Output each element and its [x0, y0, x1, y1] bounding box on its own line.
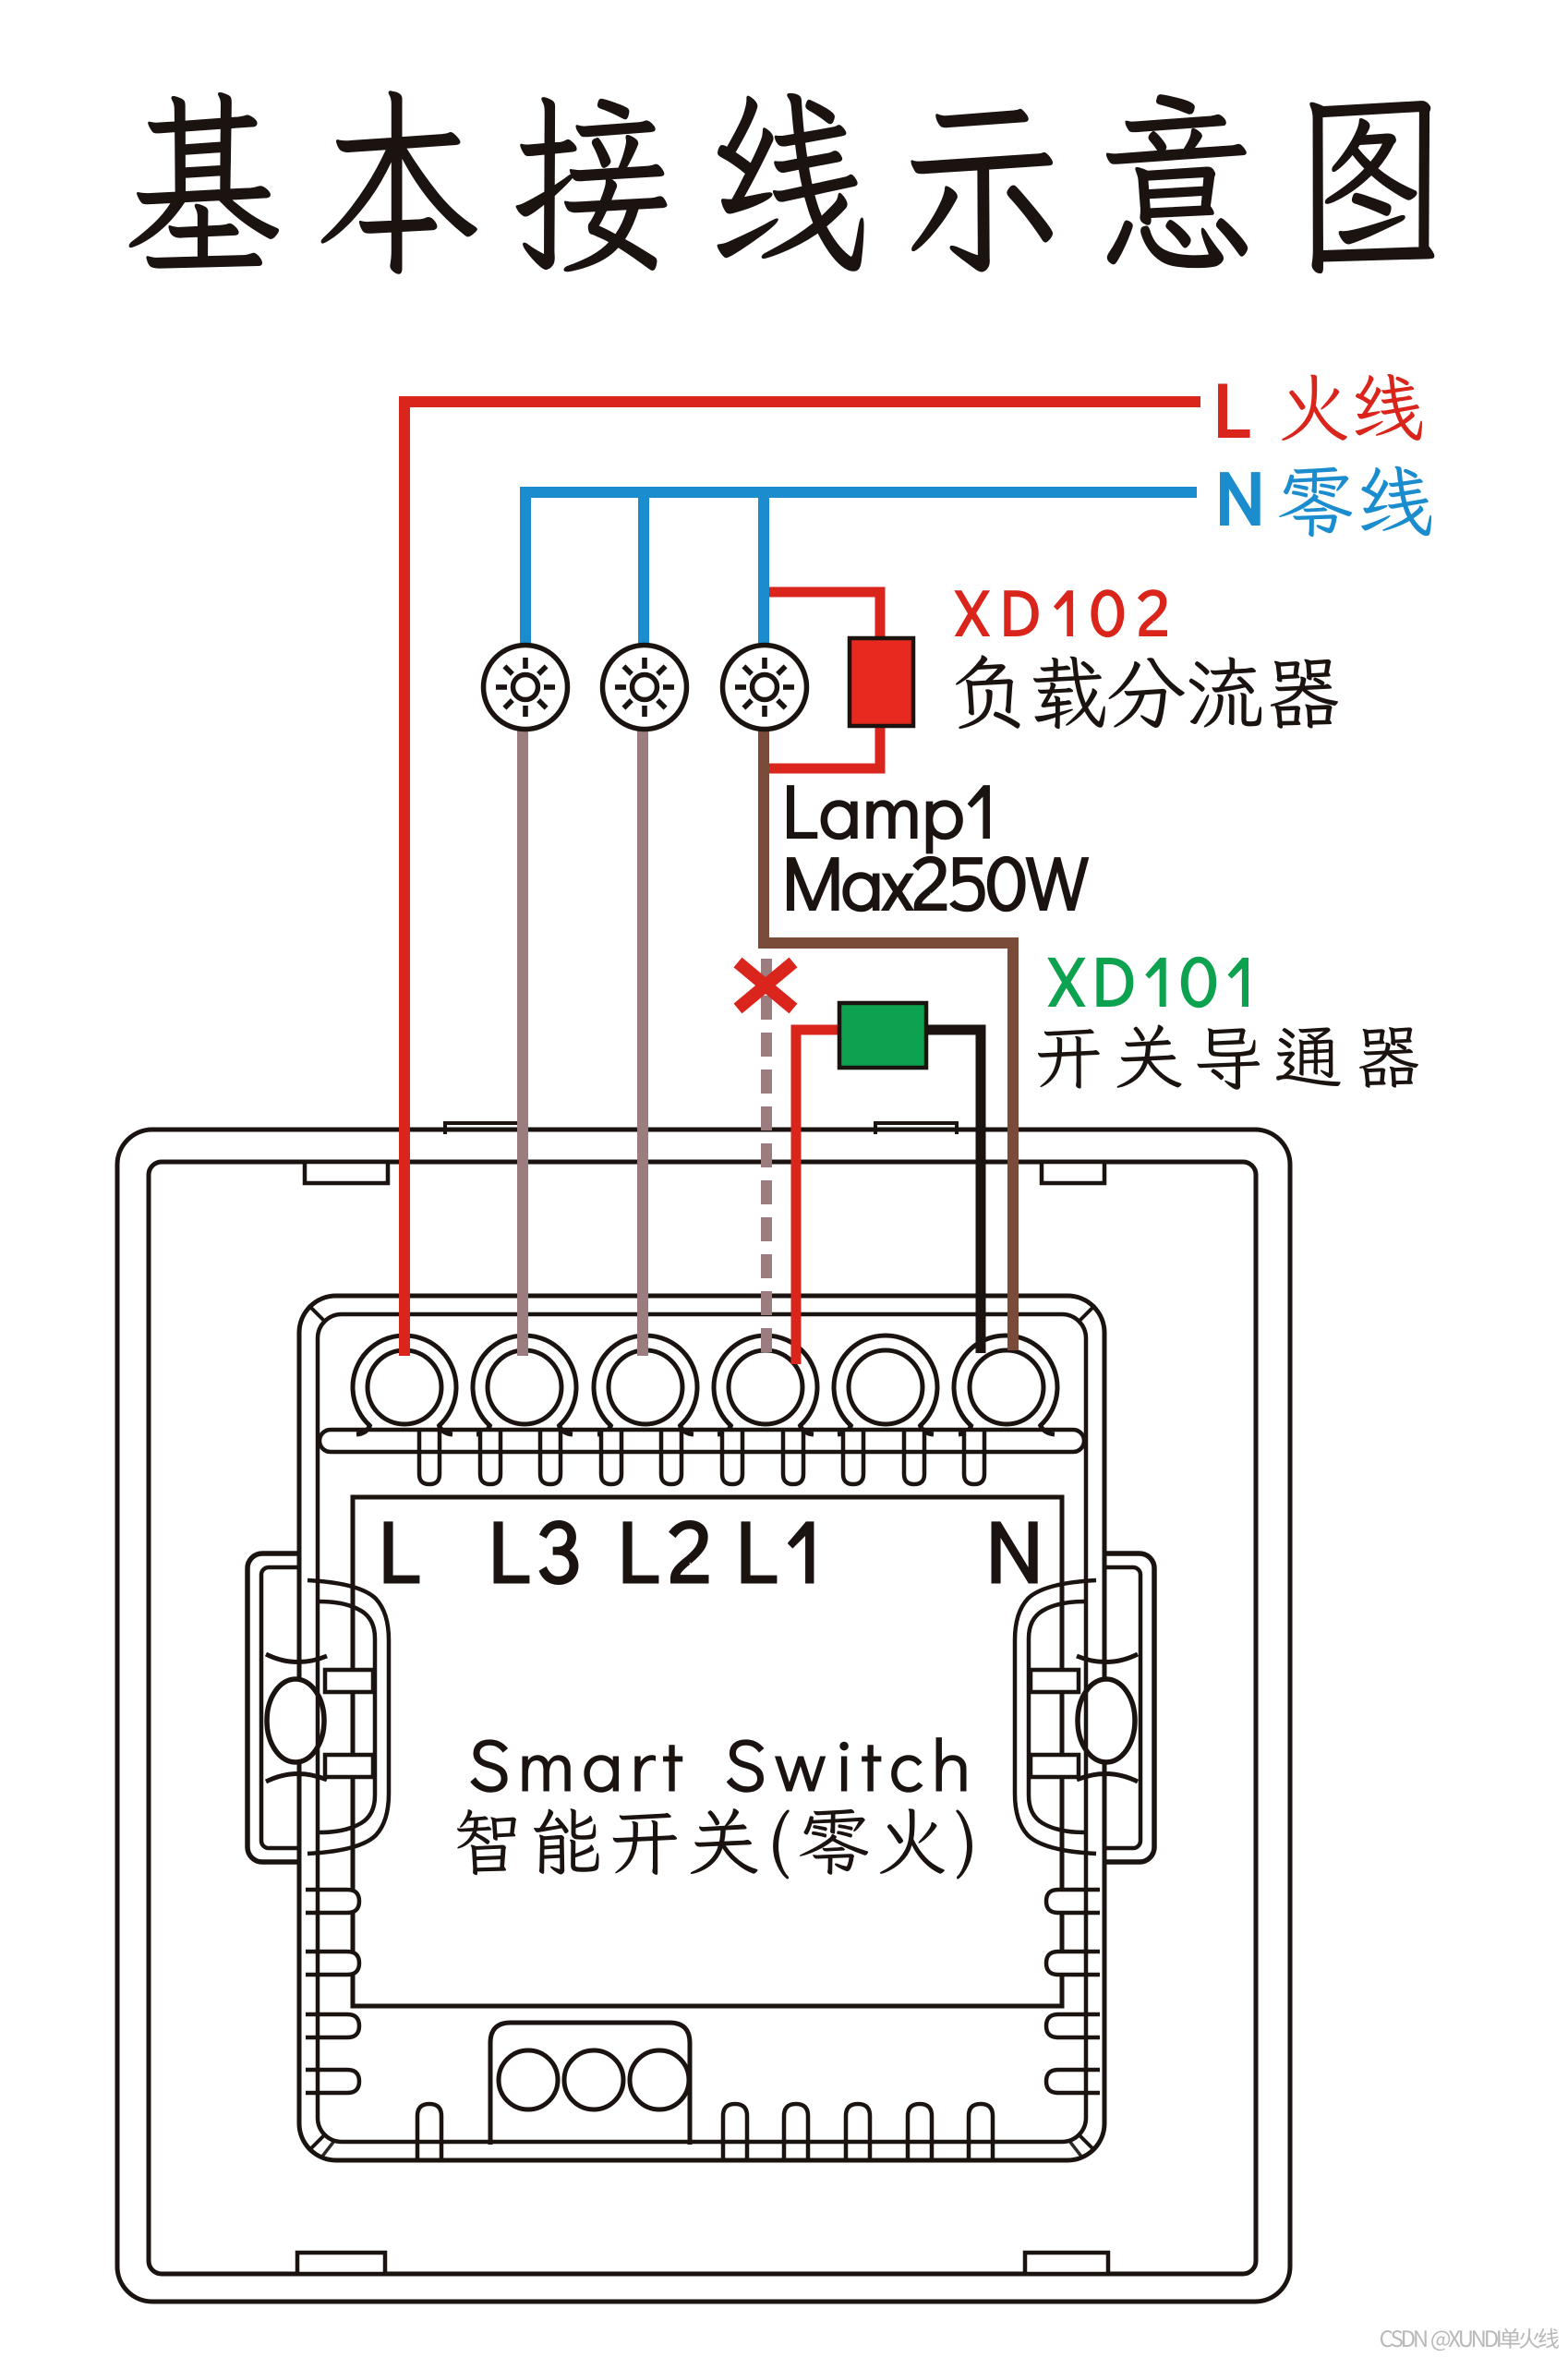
- plate clip bottom-left: [297, 2253, 385, 2274]
- right mounting wing: [1073, 1553, 1154, 1862]
- module bottom edge overdraw: [336, 2158, 1067, 2163]
- label 零线: [1279, 466, 1431, 537]
- wire N neutral (blue): [525, 492, 1197, 649]
- right claw rung upper: [1031, 1670, 1079, 1692]
- left claw rung upper: [325, 1670, 373, 1692]
- wire XD102 bottom link (red): [769, 724, 880, 768]
- wall plate inner frame: [149, 1162, 1256, 2274]
- label panel: [353, 1497, 1062, 2006]
- terminal label N: [993, 1523, 1036, 1582]
- wall plate top notch left: [445, 1123, 524, 1134]
- right side teeth: [1046, 1890, 1100, 2093]
- wire N branch lamp3 (blue): [758, 487, 769, 649]
- left mounting claw: [308, 1580, 389, 1854]
- lamp symbol 2: [603, 646, 687, 730]
- left mounting wing: [247, 1553, 329, 1862]
- plate clip top-left: [305, 1162, 388, 1183]
- bottom connector box: [490, 2023, 690, 2145]
- label XD102: [956, 590, 1166, 636]
- module corner ticks: [308, 1305, 1095, 2158]
- wire XD101 live link (red): [796, 1030, 841, 1364]
- label Lamp1: [788, 786, 989, 852]
- watermark CSDN @XUNDI单火线: [1381, 2328, 1559, 2351]
- terminal label L1: [742, 1523, 813, 1582]
- left wing bottom cut: [266, 1773, 327, 1782]
- plate clip bottom-right: [1025, 2253, 1108, 2274]
- lamp symbol 1: [484, 646, 568, 730]
- wire L live (red): [404, 402, 1200, 1356]
- label N (neutral) letter: [1222, 474, 1259, 524]
- terminal screws row (L L3 L2 L1 x N): [353, 1336, 1057, 1434]
- wall plate outer frame: [117, 1130, 1290, 2302]
- wire XD101 switched link (black): [924, 1030, 981, 1353]
- wall plate top notch right: [875, 1123, 957, 1134]
- label Max250W: [788, 857, 1088, 911]
- terminal block lower band: [320, 1430, 1084, 1452]
- wire XD102 top link (red): [769, 592, 880, 640]
- component XD102 load shunt (red box): [850, 638, 913, 726]
- wire lamp1 return (mauve): [517, 722, 528, 1356]
- title text 基本接线示意图: [129, 91, 1434, 274]
- bottom leg prongs: [417, 2104, 993, 2161]
- terminal leg prongs: [419, 1432, 984, 1484]
- text Smart Switch: [471, 1738, 966, 1793]
- module inner rim: [318, 1314, 1086, 2142]
- text 智能开关(零火): [457, 1808, 972, 1879]
- label 开关导通器: [1038, 1025, 1418, 1090]
- left side teeth: [306, 1890, 359, 2093]
- terminal label L2: [624, 1521, 707, 1582]
- wire lamp2 return (mauve): [637, 722, 648, 1356]
- label 负载分流器: [956, 655, 1338, 729]
- right mounting claw: [1015, 1580, 1096, 1854]
- wire lamp3 to N terminal (brown): [764, 722, 1013, 1350]
- wire dashed broken neutral (mauve dashed): [761, 959, 772, 1352]
- right wing screw slot: [1078, 1679, 1135, 1762]
- lamp symbol 3 (Lamp1): [723, 646, 807, 730]
- right wing bottom cut: [1077, 1773, 1138, 1782]
- wire N branch lamp2 (blue): [638, 487, 649, 649]
- terminal label L: [385, 1523, 418, 1582]
- plate clip top-right: [1042, 1162, 1104, 1183]
- switch module body outline: [299, 1296, 1104, 2160]
- label XD101: [1049, 958, 1248, 1007]
- label 火线: [1282, 374, 1422, 441]
- label L (live) letter: [1220, 385, 1248, 436]
- left wing top cut: [266, 1654, 327, 1662]
- break mark X (red): [738, 962, 793, 1009]
- terminal label L3: [495, 1521, 577, 1583]
- left wing screw slot: [267, 1679, 324, 1762]
- component XD101 switch conductor (green box): [839, 1003, 926, 1068]
- left claw rung lower: [325, 1755, 373, 1777]
- right wing top cut: [1077, 1654, 1138, 1662]
- right claw rung lower: [1031, 1755, 1079, 1777]
